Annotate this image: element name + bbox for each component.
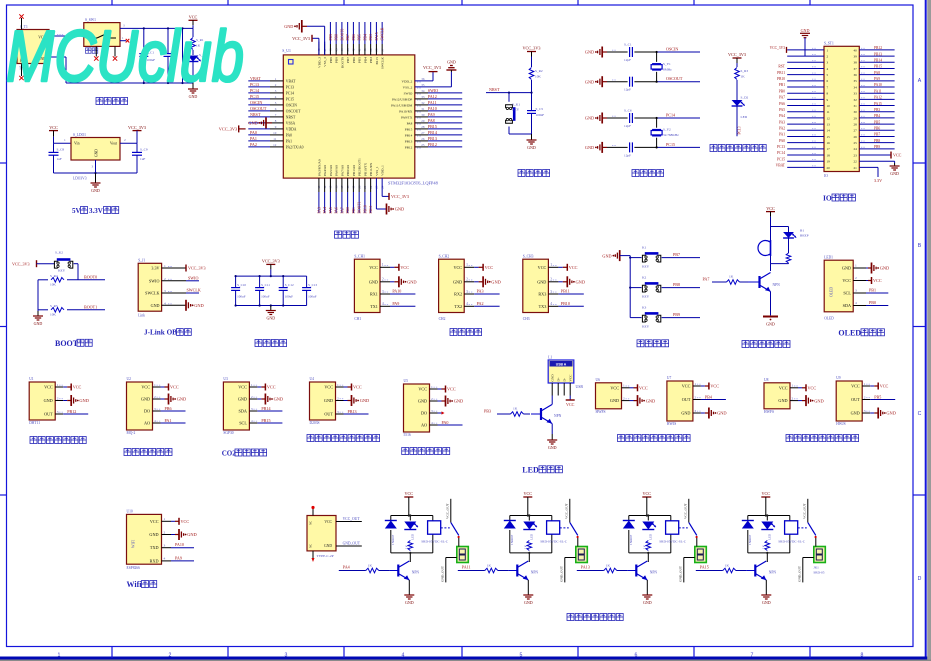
ground GND xyxy=(33,311,43,326)
wire rails xyxy=(236,269,307,305)
svg-text:1: 1 xyxy=(431,385,433,389)
svg-text:PB10: PB10 xyxy=(561,301,570,306)
wire emitter xyxy=(527,580,529,594)
svg-text:36: 36 xyxy=(421,77,425,81)
wire relay loop xyxy=(510,502,552,553)
module U5 5516 xyxy=(404,379,439,437)
svg-text:U3: U3 xyxy=(223,377,228,381)
svg-text:2: 2 xyxy=(864,395,866,399)
resistor S_R5 xyxy=(38,304,105,317)
svg-text:BOOT0: BOOT0 xyxy=(84,274,97,279)
svg-text:GND: GND xyxy=(324,398,333,403)
svg-text:PB6: PB6 xyxy=(352,57,356,63)
svg-text:VCC: VCC xyxy=(353,385,362,390)
svg-text:2: 2 xyxy=(855,276,857,280)
svg-text:GND: GND xyxy=(266,316,275,321)
svg-text:PA2: PA2 xyxy=(250,142,257,147)
svg-text:L1: L1 xyxy=(548,355,552,359)
net VCC_3V3 xyxy=(12,260,55,267)
svg-text:PB1: PB1 xyxy=(779,83,785,87)
svg-text:PA1: PA1 xyxy=(286,139,292,143)
svg-text:MQ-2: MQ-2 xyxy=(127,431,136,435)
svg-text:PA2: PA2 xyxy=(779,126,785,130)
ground GND xyxy=(630,395,656,406)
svg-text:PA1: PA1 xyxy=(250,136,257,141)
svg-text:VCC: VCC xyxy=(761,491,770,496)
svg-text:PB5: PB5 xyxy=(358,57,362,63)
svg-text:SRD-05: SRD-05 xyxy=(813,571,824,575)
wire collector xyxy=(408,514,412,562)
module U3 SGP30 xyxy=(223,377,258,435)
svg-text:1N4007: 1N4007 xyxy=(748,534,752,545)
svg-text:19: 19 xyxy=(827,160,831,164)
power VCC_3V3 xyxy=(389,193,409,200)
svg-text:1K: 1K xyxy=(741,75,746,79)
led LED xyxy=(761,522,775,541)
ground GND xyxy=(438,396,464,407)
svg-text:GND: GND xyxy=(395,207,405,212)
svg-text:NPN: NPN xyxy=(769,571,777,575)
caption 分离式红外开关模块 xyxy=(618,435,625,442)
svg-text:PC13: PC13 xyxy=(250,82,259,87)
svg-text:RST: RST xyxy=(778,65,785,69)
svg-text:12pF: 12pF xyxy=(624,58,631,62)
wire VDD_3 to VCC_3V3 xyxy=(312,38,319,55)
svg-text:PB15: PB15 xyxy=(428,124,437,129)
svg-text:36: 36 xyxy=(854,73,858,77)
svg-text:BOOT1: BOOT1 xyxy=(84,304,97,309)
svg-text:31: 31 xyxy=(854,104,858,108)
svg-text:SWIO: SWIO xyxy=(149,278,160,283)
svg-text:SDA: SDA xyxy=(843,303,851,308)
relay coil xyxy=(428,521,441,534)
module S_CH3 xyxy=(523,254,559,320)
svg-text:GND: GND xyxy=(602,253,611,258)
net PB1 xyxy=(866,288,888,294)
svg-text:16: 16 xyxy=(827,141,831,145)
svg-text:LED: LED xyxy=(648,533,652,540)
svg-text:PC14: PC14 xyxy=(666,113,675,118)
svg-text:2: 2 xyxy=(466,278,468,282)
svg-text:S_C9: S_C9 xyxy=(140,148,148,152)
svg-text:S_R2: S_R2 xyxy=(535,69,543,73)
svg-text:PB3: PB3 xyxy=(484,409,491,414)
net PB12 xyxy=(63,409,88,414)
no-connect X marks on S_SW1 xyxy=(94,56,117,60)
svg-text:K3: K3 xyxy=(642,305,647,309)
svg-text:2: 2 xyxy=(124,138,126,142)
svg-text:4: 4 xyxy=(164,301,166,305)
svg-text:VCC: VCC xyxy=(682,384,691,389)
svg-text:S_C6: S_C6 xyxy=(624,109,632,113)
svg-text:GND: GND xyxy=(576,280,586,285)
svg-text:35: 35 xyxy=(421,83,425,87)
svg-text:PA0: PA0 xyxy=(779,139,785,143)
svg-text:PA10: PA10 xyxy=(428,106,437,111)
svg-text:PB4: PB4 xyxy=(705,394,712,399)
net VCC xyxy=(558,264,577,271)
svg-text:1K: 1K xyxy=(404,544,408,549)
svg-text:PB12: PB12 xyxy=(428,142,437,147)
svg-text:30: 30 xyxy=(854,110,858,114)
svg-text:7: 7 xyxy=(751,653,754,659)
svg-text:VCC: VCC xyxy=(238,385,247,390)
wire emitter xyxy=(408,580,410,594)
led S_D2 xyxy=(732,96,749,137)
svg-text:12: 12 xyxy=(273,143,277,147)
svg-text:1K: 1K xyxy=(523,544,527,549)
regulator S_LDO1 xyxy=(71,133,120,181)
svg-text:GND: GND xyxy=(880,266,890,271)
svg-text:2: 2 xyxy=(382,278,384,282)
svg-text:PA4: PA4 xyxy=(343,564,350,569)
power VCC xyxy=(766,206,775,217)
net PA9 xyxy=(390,301,415,307)
svg-text:NRST: NRST xyxy=(250,112,261,117)
svg-text:VCC: VCC xyxy=(873,278,882,283)
caption 滤波电路 xyxy=(255,340,262,347)
diode 1N4007 xyxy=(504,521,516,546)
svg-text:VCC: VCC xyxy=(324,520,332,524)
svg-text:PB2/BOOT1: PB2/BOOT1 xyxy=(358,158,362,176)
svg-text:OUT: OUT xyxy=(851,397,860,402)
key K2 xyxy=(630,275,700,298)
capacitor S_C1 xyxy=(607,43,700,63)
svg-text:VCC_3V3: VCC_3V3 xyxy=(128,125,146,130)
power VCC_3V3 xyxy=(128,125,146,143)
svg-text:PA6/A0: PA6/A0 xyxy=(335,165,339,176)
led LED xyxy=(404,522,418,541)
svg-text:3: 3 xyxy=(251,407,253,411)
svg-text:32: 32 xyxy=(854,98,858,102)
svg-text:GND: GND xyxy=(194,303,204,308)
net VCC xyxy=(798,384,816,391)
svg-text:4: 4 xyxy=(382,302,384,306)
svg-text:GND_OUT: GND_OUT xyxy=(797,565,801,582)
svg-text:2: 2 xyxy=(337,396,339,400)
net SWCLK xyxy=(186,288,201,294)
svg-text:PB5: PB5 xyxy=(358,34,362,41)
svg-text:SRD-05VDC-SL-C: SRD-05VDC-SL-C xyxy=(540,539,567,543)
svg-text:PB13: PB13 xyxy=(405,139,413,143)
caption 声光报警电路 xyxy=(742,341,749,348)
svg-text:OSCOUT: OSCOUT xyxy=(666,76,683,81)
wire bottom pin nets xyxy=(317,178,373,213)
svg-text:PB11: PB11 xyxy=(777,71,785,75)
svg-text:VSS_2: VSS_2 xyxy=(403,85,413,89)
svg-text:PB9: PB9 xyxy=(329,57,333,63)
relay switch xyxy=(441,499,460,538)
svg-text:1K: 1K xyxy=(487,564,492,568)
svg-text:PB13: PB13 xyxy=(428,136,437,141)
caption 5V转3.3V电路 xyxy=(72,207,119,216)
wire key rail xyxy=(629,256,631,318)
svg-text:PB15: PB15 xyxy=(405,127,413,131)
svg-text:VCC_3V3: VCC_3V3 xyxy=(523,46,541,51)
svg-text:GND: GND xyxy=(177,397,187,402)
svg-text:OSCOUT: OSCOUT xyxy=(286,109,301,113)
caption 主芯片 xyxy=(335,231,342,238)
svg-text:PC13: PC13 xyxy=(286,85,294,89)
svg-text:PB11/RX: PB11/RX xyxy=(369,162,373,176)
svg-text:1: 1 xyxy=(251,383,253,387)
svg-text:PA8: PA8 xyxy=(874,71,880,75)
svg-text:RX3: RX3 xyxy=(538,292,546,297)
ground GND xyxy=(761,594,771,605)
svg-text:100nF: 100nF xyxy=(536,113,545,117)
svg-text:S_LDO1: S_LDO1 xyxy=(73,133,86,137)
svg-text:GND: GND xyxy=(585,79,594,84)
led LED xyxy=(642,522,656,541)
ground GND xyxy=(266,306,276,321)
svg-text:GND: GND xyxy=(274,397,284,402)
svg-text:2: 2 xyxy=(431,397,433,401)
switch S_SW1 xyxy=(84,18,120,57)
svg-text:GND: GND xyxy=(453,279,462,284)
svg-text:TXD: TXD xyxy=(150,545,159,550)
svg-text:K1: K1 xyxy=(642,245,647,249)
svg-text:GND: GND xyxy=(369,279,378,284)
relay coil xyxy=(547,521,560,534)
svg-text:PA12: PA12 xyxy=(428,94,437,99)
svg-text:OSCIN: OSCIN xyxy=(666,47,678,52)
svg-text:GND: GND xyxy=(360,398,370,403)
svg-text:PB3: PB3 xyxy=(369,34,373,41)
svg-text:PB1: PB1 xyxy=(869,288,876,293)
svg-text:VCC_3V3: VCC_3V3 xyxy=(292,36,310,41)
svg-text:VCC_OUT: VCC_OUT xyxy=(343,517,361,521)
ground GND xyxy=(585,142,607,153)
svg-text:PB12: PB12 xyxy=(874,46,882,50)
svg-text:10: 10 xyxy=(827,104,831,108)
svg-text:12pF: 12pF xyxy=(624,88,631,92)
ground GND xyxy=(446,60,456,73)
svg-text:18: 18 xyxy=(827,153,831,157)
capacitor S_C12 xyxy=(279,276,294,305)
svg-text:PA7/A0: PA7/A0 xyxy=(340,165,344,176)
relay switch xyxy=(679,499,698,538)
svg-text:5V: 5V xyxy=(72,207,81,215)
ground GND xyxy=(585,76,607,87)
svg-text:VCC_3V3: VCC_3V3 xyxy=(12,261,30,266)
svg-text:PC15: PC15 xyxy=(666,142,675,147)
svg-text:3: 3 xyxy=(337,410,339,414)
svg-text:PA15: PA15 xyxy=(375,57,379,65)
resistor S_R1 xyxy=(191,28,204,55)
svg-text:4: 4 xyxy=(431,421,433,425)
svg-text:PB1: PB1 xyxy=(352,207,356,214)
key K1 xyxy=(630,245,700,268)
svg-text:U10: U10 xyxy=(127,510,133,514)
svg-text:S_R5: S_R5 xyxy=(50,304,58,308)
svg-text:KEY: KEY xyxy=(58,269,66,273)
power VCC_3V3 xyxy=(423,65,441,72)
svg-text:USB: USB xyxy=(576,385,584,389)
svg-text:PA6: PA6 xyxy=(779,102,785,106)
svg-text:SCL: SCL xyxy=(843,291,851,296)
svg-text:K2: K2 xyxy=(642,275,647,279)
svg-text:ESP8266: ESP8266 xyxy=(127,566,141,570)
svg-text:17: 17 xyxy=(827,147,831,151)
terminal block xyxy=(576,538,588,563)
wire LDO out xyxy=(120,138,137,143)
svg-text:RX1: RX1 xyxy=(370,292,378,297)
resistor 1K xyxy=(642,541,650,551)
stub pin1 no-connect xyxy=(120,36,129,43)
net VCC xyxy=(257,384,275,391)
svg-text:KEY: KEY xyxy=(642,265,650,269)
svg-text:SWCLK: SWCLK xyxy=(381,57,385,69)
svg-text:GND: GND xyxy=(537,279,546,284)
svg-text:S_ST1: S_ST1 xyxy=(824,42,834,46)
wire emitter xyxy=(765,580,767,594)
svg-text:1: 1 xyxy=(164,517,166,521)
ground GND xyxy=(866,263,889,274)
svg-text:2: 2 xyxy=(154,395,156,399)
svg-text:29: 29 xyxy=(854,116,858,120)
svg-text:PB3: PB3 xyxy=(874,108,880,112)
svg-text:GND: GND xyxy=(491,280,501,285)
svg-text:TX3: TX3 xyxy=(539,304,547,309)
svg-text:10K: 10K xyxy=(535,75,541,79)
svg-text:PA3: PA3 xyxy=(317,207,321,213)
terminal block xyxy=(814,538,826,563)
svg-text:LED: LED xyxy=(767,533,771,540)
svg-text:VCC_OUT: VCC_OUT xyxy=(564,502,568,519)
svg-text:NRST: NRST xyxy=(286,115,296,119)
resistor 1K xyxy=(458,564,509,573)
terminal block xyxy=(695,538,707,563)
svg-text:BOOT0: BOOT0 xyxy=(340,57,344,68)
svg-text:SWIO: SWIO xyxy=(188,275,199,280)
svg-text:VBAT: VBAT xyxy=(776,164,786,168)
svg-text:GND: GND xyxy=(551,374,555,382)
wire emitter xyxy=(551,424,553,435)
wire VSS_2 to GND xyxy=(415,72,452,87)
svg-text:VCC: VCC xyxy=(851,384,860,389)
capacitor S_C11 xyxy=(255,276,270,305)
transistor NPN xyxy=(509,561,539,580)
svg-text:2: 2 xyxy=(164,530,166,534)
power VCC xyxy=(523,491,532,502)
svg-text:S_Y2: S_Y2 xyxy=(663,128,671,132)
svg-text:VCC: VCC xyxy=(610,385,619,390)
key S_K1 xyxy=(506,93,521,134)
svg-text:S_CH2: S_CH2 xyxy=(439,254,450,258)
svg-text:14: 14 xyxy=(827,129,831,133)
ground GND xyxy=(547,434,557,450)
svg-text:PC14: PC14 xyxy=(777,151,785,155)
svg-text:PB14: PB14 xyxy=(874,58,882,62)
svg-text:GND: GND xyxy=(585,145,594,150)
svg-text:SWCLK: SWCLK xyxy=(145,291,159,296)
svg-text:A: A xyxy=(918,78,922,84)
svg-text:KEY: KEY xyxy=(642,295,650,299)
svg-text:GND_OUT: GND_OUT xyxy=(559,565,563,582)
wire VSS_1 to GND xyxy=(376,178,386,209)
svg-text:1K: 1K xyxy=(761,544,765,549)
net VCC xyxy=(63,384,81,391)
resistor S_R3 xyxy=(735,63,749,101)
svg-text:1: 1 xyxy=(864,382,866,386)
wire gnd to collector xyxy=(551,396,553,405)
svg-text:CO2: CO2 xyxy=(222,449,237,457)
net PA3 xyxy=(474,289,499,295)
svg-text:DHT11: DHT11 xyxy=(29,421,40,425)
svg-text:S_C1: S_C1 xyxy=(624,43,632,47)
svg-text:Wifi: Wifi xyxy=(127,580,143,589)
svg-text:VDD_3: VDD_3 xyxy=(317,57,321,68)
svg-text:VCC: VCC xyxy=(880,384,889,389)
svg-text:S_D2: S_D2 xyxy=(741,96,749,100)
svg-text:NC: NC xyxy=(309,544,313,548)
svg-text:PB13: PB13 xyxy=(348,409,357,414)
resistor S_R2 xyxy=(529,57,543,93)
svg-text:U2: U2 xyxy=(127,377,132,381)
svg-text:PB13: PB13 xyxy=(874,52,882,56)
svg-text:HWFS: HWFS xyxy=(596,410,606,414)
svg-text:VCC: VCC xyxy=(710,384,719,389)
module S_CH1 xyxy=(354,254,390,320)
svg-text:3: 3 xyxy=(57,410,59,414)
svg-text:GND: GND xyxy=(151,303,160,308)
svg-text:PB10: PB10 xyxy=(363,205,367,213)
svg-text:D203S: D203S xyxy=(310,421,320,425)
resistor 1K xyxy=(497,407,530,417)
module U4 D203S xyxy=(310,377,345,425)
caption LED灯电路 xyxy=(522,465,562,474)
svg-text:OLED: OLED xyxy=(838,328,861,337)
svg-text:25: 25 xyxy=(854,141,858,145)
svg-text:PB9: PB9 xyxy=(673,312,680,317)
svg-text:20: 20 xyxy=(827,166,831,170)
capacitor S_C4 xyxy=(607,77,700,92)
ground GND xyxy=(284,20,307,33)
svg-text:1N4007: 1N4007 xyxy=(510,534,514,545)
svg-text:PA13: PA13 xyxy=(581,564,590,569)
svg-text:5516: 5516 xyxy=(404,433,411,437)
svg-text:2: 2 xyxy=(792,396,794,400)
caption BOOT电路 xyxy=(55,339,92,348)
svg-text:3: 3 xyxy=(92,165,94,169)
svg-text:GND: GND xyxy=(447,60,456,65)
svg-text:LED: LED xyxy=(741,115,748,119)
wire GND_OUT xyxy=(559,558,576,583)
svg-text:VCC: VCC xyxy=(181,519,190,524)
resistor S_R4 xyxy=(38,274,105,287)
caption 复位电路 xyxy=(518,170,525,177)
junction dots xyxy=(235,275,285,307)
resistor 1K xyxy=(577,564,628,573)
net VCC xyxy=(630,384,648,391)
svg-text:PB7: PB7 xyxy=(673,252,680,257)
svg-text:VCC: VCC xyxy=(150,519,159,524)
net PB5 xyxy=(870,394,895,399)
svg-text:S_Y1: S_Y1 xyxy=(663,62,671,66)
svg-text:3: 3 xyxy=(164,289,166,293)
svg-text:DO: DO xyxy=(144,409,150,414)
svg-text:OUT: OUT xyxy=(324,412,333,417)
wire pin22 to GND xyxy=(859,161,899,176)
svg-text:26: 26 xyxy=(854,135,858,139)
svg-text:PA9: PA9 xyxy=(874,77,880,81)
svg-text:KEY: KEY xyxy=(642,325,650,329)
ground GND xyxy=(387,204,405,215)
caption J-Link OB接口 xyxy=(144,328,191,336)
svg-text:CH3: CH3 xyxy=(523,317,530,321)
svg-text:C: C xyxy=(918,411,922,417)
svg-text:4: 4 xyxy=(251,419,253,423)
